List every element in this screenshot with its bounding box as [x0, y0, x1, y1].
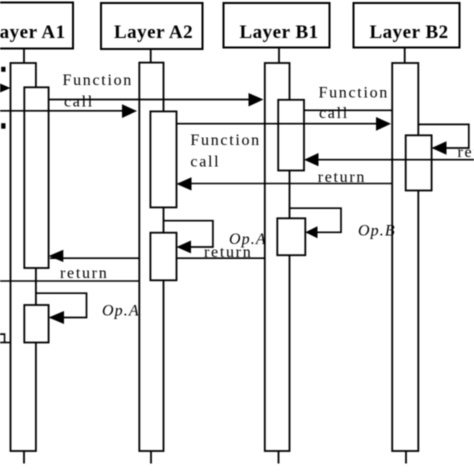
- svg-text:Op.A: Op.A: [102, 302, 140, 319]
- svg-text:Layer B2: Layer B2: [370, 22, 449, 43]
- svg-text:call: call: [319, 105, 349, 122]
- svg-text:return: return: [318, 169, 366, 186]
- svg-text:Function: Function: [190, 132, 261, 149]
- svg-text:Layer A1: Layer A1: [0, 22, 66, 43]
- svg-text:call: call: [64, 93, 94, 110]
- svg-text:call: call: [190, 153, 220, 170]
- svg-text:return: return: [458, 144, 474, 161]
- svg-text:Op.B: Op.B: [358, 223, 396, 240]
- svg-text:Layer B1: Layer B1: [240, 22, 319, 43]
- svg-text:Function: Function: [319, 84, 390, 101]
- svg-text:Op.A: Op.A: [229, 231, 267, 248]
- svg-text:return: return: [60, 265, 108, 282]
- svg-text:Function: Function: [63, 72, 134, 89]
- svg-text:Layer A2: Layer A2: [114, 22, 193, 43]
